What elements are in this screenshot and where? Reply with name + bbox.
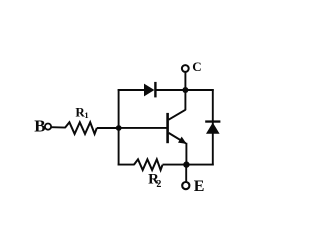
wire R2 to emitter node (163, 164, 214, 166)
wire: top from left rail to diode (118, 89, 145, 91)
terminal E (182, 182, 189, 189)
terminal C (182, 65, 189, 72)
wire: left rail vertical (118, 89, 120, 165)
wire: bottom from left rail to R2 (118, 164, 135, 166)
diode D1 (base-collector clamp) (144, 84, 154, 97)
resistor R2 (134, 159, 163, 170)
wire B to R1 (51, 126, 65, 128)
wire: E terminal drop (185, 165, 187, 182)
node: base junction dot (116, 125, 122, 131)
wire: right rail vertical (212, 89, 214, 165)
transistor Q1 collector lead (169, 110, 186, 120)
svg-text:2: 2 (156, 179, 161, 190)
transistor Q1 base bar (166, 113, 169, 143)
wire: collector vertical to terminal C (184, 72, 186, 110)
transistor Q1 emitter arrow (178, 137, 187, 144)
resistor R1 (65, 122, 97, 134)
wire: base node to transistor base (118, 127, 167, 129)
svg-text:1: 1 (84, 110, 88, 120)
svg-text:C: C (192, 59, 201, 74)
terminal B (45, 124, 51, 130)
diode D2 (collector-emitter protection) (205, 120, 220, 122)
transistor Q1 emitter lead (169, 133, 186, 143)
wire: top from diode to right rail (155, 89, 214, 91)
svg-text:B: B (34, 116, 45, 135)
svg-text:E: E (194, 178, 205, 195)
node: emitter junction dot (183, 161, 189, 167)
wire R1 to base node (97, 127, 120, 129)
node: collector junction dot (182, 87, 188, 93)
wire: emitter vertical (185, 143, 187, 165)
